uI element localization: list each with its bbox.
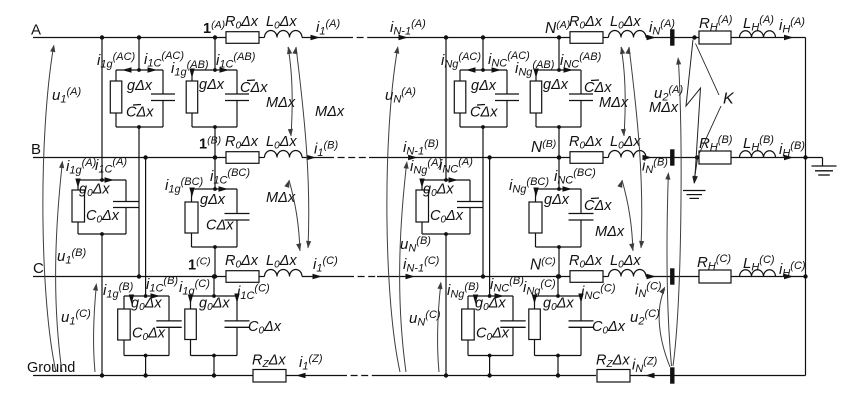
- voltage u2(C) head: [659, 287, 665, 295]
- shunt branch N AB (gdx||Cdx) between lines A and B resistor: [530, 70, 542, 127]
- current iH(C) arrow: [784, 274, 794, 279]
- wire line A segment x33-226: [33, 37, 226, 39]
- wire line B segment x327-369: [327, 157, 369, 159]
- mutual MΔx cell 1 B-C head1: [284, 180, 289, 188]
- arrow iNg(BC): [533, 188, 538, 198]
- svg-text:g0Δx: g0Δx: [199, 296, 230, 314]
- svg-text:C0Δx: C0Δx: [430, 208, 464, 226]
- svg-text:i1C(BC): i1C(BC): [210, 167, 250, 187]
- shunt branch N C-ground (g0dx||C0dx) between C and ground top bar wire: [535, 295, 582, 297]
- shunt branch N B-ground (g0dx||C0dx) between C and ground feed wire: [487, 155, 491, 298]
- shunt branch 1 BC (gdx||Cdx) between lines B and C junction wire down: [213, 247, 217, 279]
- wire line A segment x346-372: [346, 37, 372, 39]
- leader K to phase A blade: [696, 44, 720, 96]
- shunt branch 1 C-ground (g0dx||C0dx) between C and ground resistor: [185, 296, 197, 356]
- svg-text:u2(C): u2(C): [630, 308, 660, 328]
- svg-text:i1(B): i1(B): [314, 140, 338, 160]
- resistor R0dx cell N line C: [570, 271, 603, 283]
- inductor L0dx cell 1 line A: [265, 31, 303, 38]
- svg-text:u1(A): u1(A): [52, 86, 81, 106]
- mutual MΔx cell 1 A-C: [296, 47, 309, 248]
- shunt branch 1 BC (gdx||Cdx) between lines B and C bottom bar wire: [192, 245, 238, 249]
- junction dot line A switch: [692, 35, 696, 39]
- shunt branch N C-ground (g0dx||C0dx) between C and ground capacitor: [569, 296, 594, 356]
- svg-text:iN-1(B): iN-1(B): [403, 138, 439, 158]
- svg-text:i1(A): i1(A): [316, 18, 340, 38]
- fault stroke phase A arrowhead: [693, 176, 698, 184]
- label Cdx branch 1 AC: [126, 105, 154, 121]
- svg-text:iNC(AB): iNC(AB): [560, 51, 602, 71]
- wire ground line segment x629-805.5: [629, 375, 806, 377]
- svg-text:i1g(B): i1g(B): [103, 281, 134, 301]
- svg-text:R0Δx: R0Δx: [569, 134, 603, 152]
- mutual MΔx cell 1 A-C head2: [306, 241, 311, 249]
- svg-text:A: A: [31, 22, 41, 39]
- arrow iNg(AB): [533, 69, 538, 79]
- shunt branch 1 A-ground (g0dx||C0dx) carried between B and C feed wire: [100, 35, 104, 182]
- shunt branch 1 B-ground (g0dx||C0dx) between C and ground top bar wire: [124, 295, 169, 297]
- wire line A segment x646-805.5: [646, 37, 806, 39]
- arrow iNC(AC): [492, 67, 502, 72]
- svg-text:u1(C): u1(C): [61, 308, 91, 328]
- label Cdx branch N AC: [470, 105, 498, 121]
- shunt branch N BC (gdx||Cdx) between lines B and C feed wire: [557, 155, 561, 191]
- shunt branch 1 AC (gdx||Cdx) between lines A and C junction wire down: [137, 127, 141, 279]
- wire line B segment x646-805.5: [646, 157, 806, 159]
- wire line B segment x603-608.5: [603, 157, 609, 159]
- arrow iNC(B): [495, 293, 505, 298]
- current iH(B) arrow: [784, 155, 794, 160]
- svg-text:MΔx: MΔx: [266, 190, 296, 206]
- shunt branch 1 A-ground (g0dx||C0dx) carried between B and C bottom bar wire: [78, 232, 126, 236]
- wire ground line segment x33-253: [33, 375, 253, 377]
- arrow i1g(A): [75, 179, 80, 189]
- shunt branch 1 AB (gdx||Cdx) between lines A and B capacitor: [225, 70, 249, 127]
- svg-text:R0Δx: R0Δx: [225, 14, 259, 32]
- mutual MΔx cell N B-C head2: [629, 243, 634, 251]
- voltage uN(C) head: [437, 282, 442, 290]
- shunt branch N AB (gdx||Cdx) between lines A and B top bar wire: [536, 69, 581, 71]
- svg-text:C0Δx: C0Δx: [132, 326, 166, 344]
- shunt branch N C-ground (g0dx||C0dx) between C and ground junction wire down: [556, 356, 560, 378]
- arrow i1g(BC): [189, 188, 194, 198]
- voltage u2(A): [673, 60, 681, 366]
- svg-text:CΔx: CΔx: [470, 105, 498, 121]
- svg-text:iNg(A): iNg(A): [410, 157, 442, 177]
- resistor R0dx cell 1 line C: [226, 271, 259, 283]
- svg-text:iNC(B): iNC(B): [490, 275, 524, 295]
- svg-text:RZΔx: RZΔx: [252, 353, 286, 371]
- svg-text:i1C(B): i1C(B): [146, 275, 178, 295]
- mutual MΔx cell 1 A-B head2: [288, 129, 293, 137]
- mutual MΔx cell 1 A-C head1: [292, 47, 297, 55]
- arrow iNC(AB): [564, 67, 574, 72]
- shunt branch N A-ground (g0dx||C0dx) carried between B and C junction wire down: [444, 234, 448, 378]
- mutual MΔx cell 1 B-C head2: [296, 243, 301, 251]
- svg-text:RZΔx: RZΔx: [596, 353, 630, 371]
- label Cdx branch N BC: [584, 198, 612, 214]
- svg-text:CΔx: CΔx: [206, 218, 234, 234]
- resistor RZdx cell 1: [253, 370, 286, 383]
- shunt branch 1 A-ground (g0dx||C0dx) carried between B and C resistor: [72, 180, 85, 234]
- svg-text:R0Δx: R0Δx: [569, 253, 603, 271]
- shunt branch 1 BC (gdx||Cdx) between lines B and C feed wire: [213, 155, 217, 191]
- shunt branch N BC (gdx||Cdx) between lines B and C bottom bar wire: [536, 245, 582, 249]
- label Cdx branch N AB: [584, 80, 612, 96]
- shunt branch 1 AB (gdx||Cdx) between lines A and B feed wire: [213, 35, 217, 72]
- svg-text:iN-1(C): iN-1(C): [403, 255, 440, 275]
- fault stroke phase B arrowhead: [692, 176, 697, 184]
- shunt branch N AC (gdx||Cdx) between lines A and C bottom bar wire: [460, 125, 507, 129]
- svg-text:CΔx: CΔx: [584, 198, 612, 214]
- svg-text:B: B: [31, 141, 41, 158]
- wire line C segment x347-377: [347, 276, 377, 278]
- resistor R0dx cell N line B: [570, 152, 603, 164]
- shunt branch N AB (gdx||Cdx) between lines A and B feed wire: [557, 35, 561, 72]
- svg-text:i1(C): i1(C): [313, 255, 338, 275]
- arrow i1g(C): [188, 295, 193, 305]
- shunt branch 1 C-ground (g0dx||C0dx) between C and ground capacitor: [225, 296, 250, 356]
- svg-text:i1C(C): i1C(C): [237, 283, 270, 303]
- svg-text:MΔx: MΔx: [315, 104, 345, 120]
- shunt branch N AB (gdx||Cdx) between lines A and B junction wire down: [557, 127, 561, 160]
- wire line B segment x259-264.5: [259, 157, 265, 159]
- shunt branch 1 A-ground (g0dx||C0dx) carried between B and C junction wire down: [100, 234, 104, 378]
- shunt branch 1 C-ground (g0dx||C0dx) between C and ground top bar wire: [191, 295, 238, 297]
- arrow iNg(B): [473, 295, 478, 305]
- voltage u1(C): [93, 286, 96, 372]
- terminal tick line A: [670, 29, 674, 45]
- svg-text:1(B): 1(B): [199, 134, 221, 152]
- svg-text:R0Δx: R0Δx: [569, 14, 603, 32]
- svg-text:C0Δx: C0Δx: [248, 319, 282, 337]
- fault stroke phase B: [694, 159, 697, 181]
- svg-text:iN(B): iN(B): [642, 157, 668, 177]
- shunt branch N C-ground (g0dx||C0dx) between C and ground resistor: [529, 296, 541, 356]
- wire ground line segment x377-596: [377, 375, 596, 377]
- voltage uN(B) head: [404, 161, 409, 169]
- svg-text:C0Δx: C0Δx: [86, 208, 120, 226]
- svg-text:gΔx: gΔx: [543, 77, 569, 93]
- arrow i1C(AB): [220, 67, 230, 72]
- shunt branch 1 B-ground (g0dx||C0dx) between C and ground resistor: [118, 296, 131, 356]
- wire line C segment x302-347: [302, 276, 347, 278]
- wire line C segment x33-226: [33, 276, 226, 278]
- wire line C segment x603-608.5: [603, 276, 609, 278]
- svg-text:iNC(BC): iNC(BC): [554, 167, 596, 187]
- current iN-1(C) arrow: [406, 274, 416, 279]
- shunt branch N A-ground (g0dx||C0dx) carried between B and C resistor: [416, 180, 429, 234]
- svg-text:R0Δx: R0Δx: [225, 134, 259, 152]
- shunt branch 1 B-ground (g0dx||C0dx) between C and ground feed wire: [143, 155, 147, 298]
- shunt branch 1 B-ground (g0dx||C0dx) between C and ground junction wire down: [143, 356, 147, 378]
- shunt branch N C-ground (g0dx||C0dx) between C and ground feed wire: [556, 274, 560, 298]
- svg-text:i1C(A): i1C(A): [95, 156, 127, 176]
- resistor R0dx cell N line A: [570, 32, 603, 44]
- arrow iNC(C): [578, 294, 583, 304]
- svg-text:g0Δx: g0Δx: [543, 296, 574, 314]
- svg-text:C0Δx: C0Δx: [476, 326, 510, 344]
- inductor L0dx cell 1 line C: [265, 270, 303, 277]
- svg-text:iNC(C): iNC(C): [581, 283, 616, 303]
- terminal tick ground: [670, 367, 674, 383]
- current iN(A) arrow: [647, 35, 657, 40]
- junction dot line B switch: [695, 155, 699, 159]
- svg-text:iH(B): iH(B): [779, 140, 805, 160]
- shunt branch 1 AC (gdx||Cdx) between lines A and C resistor: [110, 70, 122, 127]
- shunt branch 1 BC (gdx||Cdx) between lines B and C top bar wire: [192, 188, 238, 190]
- svg-text:iNC(A): iNC(A): [439, 156, 473, 176]
- resistor RH(C): [699, 270, 731, 283]
- shunt branch 1 BC (gdx||Cdx) between lines B and C resistor: [185, 189, 198, 247]
- wire line C segment x646-805.5: [646, 276, 806, 278]
- resistor RH(A): [699, 31, 731, 44]
- svg-text:CΔx: CΔx: [126, 105, 154, 121]
- voltage uN(A) head: [394, 46, 399, 54]
- wire line B segment x369-570: [369, 157, 570, 159]
- svg-text:iN(C): iN(C): [635, 281, 662, 301]
- terminal tick line C: [670, 268, 674, 284]
- arrow i1C(A): [105, 177, 115, 182]
- wire line A segment x302-346: [302, 37, 346, 39]
- shunt branch N BC (gdx||Cdx) between lines B and C resistor: [529, 189, 542, 247]
- arrow i1C(AC): [148, 67, 158, 72]
- arrow iNC(BC): [563, 186, 573, 191]
- voltage u1(B): [56, 163, 63, 372]
- ground symbol right: [806, 158, 837, 176]
- svg-text:gΔx: gΔx: [544, 192, 570, 208]
- resistor R0dx cell 1 line A: [226, 32, 259, 44]
- junction dot bus line B: [803, 155, 807, 159]
- shunt branch N AC (gdx||Cdx) between lines A and C junction wire down: [481, 127, 485, 279]
- mutual MΔx cell N B-C: [622, 180, 633, 251]
- shunt branch N AC (gdx||Cdx) between lines A and C top bar wire: [460, 69, 507, 71]
- svg-text:gΔx: gΔx: [471, 78, 497, 94]
- inductor LH(B): [740, 151, 776, 158]
- arrow i1C(B): [151, 293, 161, 298]
- mutual MΔx cell N A-C: [629, 47, 642, 248]
- shunt branch N B-ground (g0dx||C0dx) between C and ground junction wire down: [487, 356, 491, 378]
- inductor LH(C): [740, 270, 776, 277]
- mutual MΔx cell N A-C head2: [639, 241, 644, 249]
- svg-text:1(A): 1(A): [203, 19, 225, 37]
- shunt branch N B-ground (g0dx||C0dx) between C and ground bottom bar wire: [468, 354, 513, 358]
- shunt branch N BC (gdx||Cdx) between lines B and C top bar wire: [536, 188, 582, 190]
- voltage u1(A): [43, 47, 56, 372]
- mutual MΔx cell 1 A-B: [288, 47, 292, 136]
- svg-text:uN(B): uN(B): [400, 235, 431, 255]
- arrow iNg(C): [532, 295, 537, 305]
- svg-text:i1g(AC): i1g(AC): [97, 51, 136, 71]
- svg-text:gΔx: gΔx: [200, 192, 226, 208]
- svg-text:g0Δx: g0Δx: [475, 296, 506, 314]
- mutual MΔx cell N A-B head1: [620, 47, 625, 55]
- shunt branch N C-ground (g0dx||C0dx) between C and ground bottom bar wire: [535, 354, 582, 358]
- wire line A segment x603-608.5: [603, 37, 609, 39]
- svg-text:MΔx: MΔx: [599, 95, 629, 111]
- leader K to phase B blade: [700, 106, 722, 153]
- arrow i1g(AC): [122, 67, 132, 72]
- svg-text:g0Δx: g0Δx: [79, 182, 110, 200]
- shunt branch 1 AB (gdx||Cdx) between lines A and B resistor: [186, 70, 198, 127]
- svg-text:Ground: Ground: [27, 360, 75, 376]
- shunt branch 1 AB (gdx||Cdx) between lines A and B top bar wire: [192, 69, 237, 71]
- svg-text:L0Δx: L0Δx: [266, 14, 297, 32]
- resistor R0dx cell 1 line B: [226, 152, 259, 164]
- resistor RH(B): [699, 151, 731, 164]
- svg-text:C: C: [33, 260, 44, 277]
- svg-text:uN(A): uN(A): [385, 86, 416, 106]
- voltage u2(A) head: [676, 57, 681, 65]
- shunt branch N A-ground (g0dx||C0dx) carried between B and C bottom bar wire: [422, 232, 470, 236]
- arrow i1g(B): [129, 295, 134, 305]
- arrow iNg(A): [419, 179, 424, 189]
- shunt branch N BC (gdx||Cdx) between lines B and C junction wire down: [557, 247, 561, 279]
- current iN(Z) arrow: [645, 373, 655, 378]
- inductor L0dx cell 1 line B: [265, 151, 303, 158]
- arrow i1g(AB): [189, 69, 194, 79]
- shunt branch 1 A-ground (g0dx||C0dx) carried between B and C top bar wire: [78, 179, 126, 181]
- shunt branch N B-ground (g0dx||C0dx) between C and ground capacitor: [500, 296, 525, 356]
- shunt branch 1 A-ground (g0dx||C0dx) carried between B and C capacitor: [113, 180, 139, 234]
- svg-text:u1(B): u1(B): [57, 247, 86, 267]
- shunt branch N A-ground (g0dx||C0dx) carried between B and C feed wire: [444, 35, 448, 182]
- voltage uN(B): [400, 164, 407, 372]
- voltage u2(B) (unlabeled): [667, 175, 672, 366]
- current i1(Z) arrow: [296, 373, 306, 378]
- svg-text:N(B): N(B): [531, 138, 556, 156]
- svg-text:MΔx: MΔx: [266, 95, 296, 111]
- shunt branch 1 AC (gdx||Cdx) between lines A and C top bar wire: [116, 69, 163, 71]
- svg-text:L0Δx: L0Δx: [610, 14, 641, 32]
- voltage uN(A): [387, 49, 400, 372]
- current i1(B) arrow: [307, 155, 317, 160]
- inductor L0dx cell N line C: [609, 270, 647, 277]
- svg-text:L0Δx: L0Δx: [266, 134, 297, 152]
- svg-text:C0Δx: C0Δx: [592, 319, 626, 337]
- svg-text:i1g(BC): i1g(BC): [165, 176, 204, 196]
- shunt branch N B-ground (g0dx||C0dx) between C and ground top bar wire: [468, 295, 513, 297]
- inductor L0dx cell N line B: [609, 151, 647, 158]
- svg-text:iN-1(A): iN-1(A): [390, 18, 426, 38]
- svg-text:i1C(AB): i1C(AB): [216, 51, 256, 71]
- arrow i1C(BC): [219, 186, 229, 191]
- svg-text:R0Δx: R0Δx: [225, 253, 259, 271]
- wire ground line segment x286-340: [286, 375, 340, 377]
- shunt branch 1 B-ground (g0dx||C0dx) between C and ground capacitor: [156, 296, 181, 356]
- mutual MΔx cell 1 A-B head1: [287, 47, 292, 55]
- voltage u2(C): [659, 289, 670, 367]
- voltage u2(B) (unlabeled) head: [665, 172, 670, 180]
- voltage u1(B) head: [59, 161, 64, 169]
- wire line B segment x33-226: [33, 157, 226, 159]
- shunt branch 1 AC (gdx||Cdx) between lines A and C capacitor: [151, 70, 175, 127]
- voltage uN(C): [438, 285, 441, 373]
- wire line A segment x259-264.5: [259, 37, 265, 39]
- shunt branch N BC (gdx||Cdx) between lines B and C capacitor: [569, 189, 594, 247]
- voltage u1(A) head: [50, 45, 55, 53]
- svg-text:iN(Z): iN(Z): [632, 356, 658, 376]
- svg-text:g0Δx: g0Δx: [131, 296, 162, 314]
- wire line A segment x372-570: [372, 37, 570, 39]
- wire line C segment x377-570: [377, 276, 570, 278]
- inductor L0dx cell N line A: [609, 31, 647, 38]
- svg-text:i1g(A): i1g(A): [66, 157, 97, 177]
- mutual MΔx cell N B-C head1: [617, 180, 622, 188]
- svg-text:L0Δx: L0Δx: [266, 253, 297, 271]
- svg-text:L0Δx: L0Δx: [610, 253, 641, 271]
- wire ground line segment x340-377: [340, 375, 377, 377]
- mutual MΔx cell 1 B-C: [289, 180, 300, 251]
- svg-text:LH(C): LH(C): [743, 254, 775, 274]
- ground symbol at fault: [683, 191, 706, 199]
- svg-text:CΔx: CΔx: [584, 80, 612, 96]
- svg-text:iH(A): iH(A): [779, 16, 805, 36]
- shunt branch 1 AC (gdx||Cdx) between lines A and C feed wire: [137, 35, 141, 72]
- wire line C segment x259-264.5: [259, 276, 265, 278]
- shunt branch 1 B-ground (g0dx||C0dx) between C and ground bottom bar wire: [124, 354, 169, 358]
- mutual MΔx cell N A-B: [621, 47, 625, 136]
- svg-text:N(A): N(A): [545, 19, 570, 37]
- svg-text:1(C): 1(C): [188, 255, 211, 273]
- svg-text:uN(C): uN(C): [409, 309, 441, 329]
- svg-text:MΔx: MΔx: [595, 224, 625, 240]
- inductor LH(A): [740, 31, 776, 38]
- current iN-1(A) arrow: [399, 35, 409, 40]
- shunt branch N A-ground (g0dx||C0dx) carried between B and C capacitor: [457, 180, 483, 234]
- shunt branch 1 AB (gdx||Cdx) between lines A and B bottom bar wire: [192, 125, 237, 129]
- shunt branch N AB (gdx||Cdx) between lines A and B bottom bar wire: [536, 125, 581, 129]
- mutual MΔx cell N A-C head1: [625, 47, 630, 55]
- shunt branch 1 C-ground (g0dx||C0dx) between C and ground bottom bar wire: [191, 354, 238, 358]
- svg-text:L0Δx: L0Δx: [610, 134, 641, 152]
- mutual MΔx cell N A-B head2: [621, 129, 626, 137]
- wire right bus: [805, 38, 807, 376]
- arrow i1C(C): [234, 294, 239, 304]
- terminal tick line B: [670, 149, 674, 165]
- current iN(B) arrow: [643, 155, 653, 160]
- shunt branch N B-ground (g0dx||C0dx) between C and ground resistor: [462, 296, 475, 356]
- shunt branch 1 AB (gdx||Cdx) between lines A and B junction wire down: [213, 127, 217, 160]
- shunt branch 1 BC (gdx||Cdx) between lines B and C capacitor: [225, 189, 250, 247]
- current iH(A) arrow: [784, 35, 794, 40]
- label Cdx branch 1 AB: [240, 80, 268, 96]
- current iN(C) arrow: [647, 274, 657, 279]
- shunt branch N AC (gdx||Cdx) between lines A and C feed wire: [481, 35, 485, 72]
- shunt branch N AC (gdx||Cdx) between lines A and C resistor: [454, 70, 466, 127]
- shunt branch 1 C-ground (g0dx||C0dx) between C and ground junction wire down: [212, 356, 216, 378]
- svg-text:gΔx: gΔx: [199, 77, 225, 93]
- shunt branch N AC (gdx||Cdx) between lines A and C capacitor: [495, 70, 519, 127]
- resistor RZdx cell N: [597, 370, 630, 383]
- shunt branch 1 AC (gdx||Cdx) between lines A and C bottom bar wire: [116, 125, 163, 129]
- svg-text:MΔx: MΔx: [649, 100, 679, 116]
- current i1(A) arrow: [311, 35, 321, 40]
- svg-text:CΔx: CΔx: [240, 80, 268, 96]
- svg-text:gΔx: gΔx: [127, 78, 153, 94]
- current iN-1(B) arrow: [408, 155, 418, 160]
- shunt branch N AB (gdx||Cdx) between lines A and B capacitor: [569, 70, 593, 127]
- svg-text:K: K: [723, 91, 735, 108]
- junction dot bus line C: [803, 274, 807, 278]
- svg-text:i1(Z): i1(Z): [299, 353, 323, 373]
- fault stroke phase A (lightning to earth): [686, 40, 701, 180]
- arrow iNg(AC): [466, 67, 476, 72]
- shunt branch N A-ground (g0dx||C0dx) carried between B and C top bar wire: [422, 179, 470, 181]
- current i1(C) arrow: [313, 274, 323, 279]
- shunt branch 1 C-ground (g0dx||C0dx) between C and ground feed wire: [212, 274, 216, 298]
- voltage u1(C) head: [93, 283, 98, 291]
